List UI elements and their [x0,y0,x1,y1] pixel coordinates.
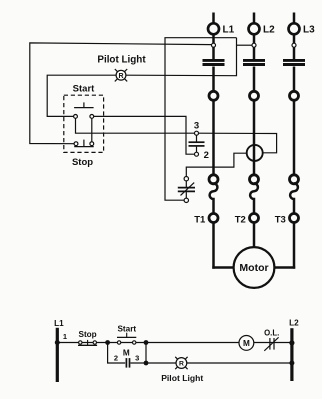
svg-text:3: 3 [194,121,199,132]
svg-text:L1: L1 [223,24,235,35]
svg-text:M: M [123,349,130,358]
svg-text:R: R [179,361,184,368]
svg-text:Pilot Light: Pilot Light [161,373,203,383]
svg-text:Motor: Motor [239,262,268,274]
svg-text:2: 2 [114,354,118,363]
svg-text:Start: Start [73,84,95,95]
svg-text:3: 3 [135,354,139,363]
svg-text:T1: T1 [194,214,206,225]
svg-text:2: 2 [204,150,209,161]
svg-text:1: 1 [63,332,67,341]
svg-text:L2: L2 [289,319,299,328]
svg-text:L2: L2 [263,24,275,35]
svg-text:Stop: Stop [72,157,93,168]
svg-text:Stop: Stop [78,330,96,339]
svg-text:Start: Start [117,325,136,334]
svg-text:L1: L1 [54,319,64,328]
svg-text:L3: L3 [303,24,315,35]
svg-text:O.L.: O.L. [264,328,279,337]
svg-text:T2: T2 [235,214,246,225]
svg-text:M: M [243,339,250,348]
svg-text:R: R [118,73,123,80]
svg-text:Pilot Light: Pilot Light [97,55,146,66]
svg-text:T3: T3 [275,214,286,225]
